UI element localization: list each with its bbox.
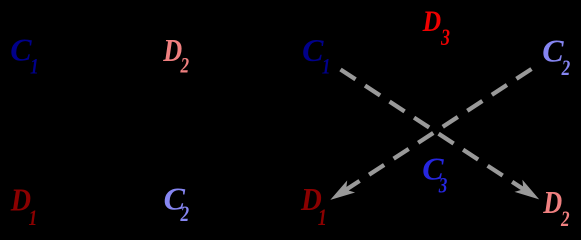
svg-text:2: 2 [180,54,190,79]
svg-text:D: D [162,34,182,69]
svg-text:1: 1 [318,204,327,231]
svg-text:D: D [542,185,562,220]
svg-text:1: 1 [30,55,39,79]
arrowhead of C1-D2 arrow [515,180,540,200]
node D3 (right diagram) [422,4,450,51]
wire dashed arrow from C1 toward D2 [341,70,526,191]
svg-text:2: 2 [180,202,190,227]
node C1 (right diagram) [302,32,330,79]
svg-text:3: 3 [440,26,450,51]
node C2 (left diagram) [164,181,190,227]
svg-text:C: C [10,32,32,68]
svg-text:C: C [302,32,324,68]
svg-text:1: 1 [29,206,38,230]
node C1 (left diagram) [10,32,39,80]
node C3 (right diagram) [422,151,447,198]
svg-text:D: D [422,4,441,37]
node D2 (left diagram) [162,34,189,78]
node D1 (right diagram) [300,181,327,230]
svg-text:2: 2 [560,207,570,232]
svg-text:1: 1 [322,55,331,79]
wire dashed arrow from C2 toward D1 [344,69,532,191]
arrowhead of C2-D1 arrow [330,180,355,200]
node C2 (right diagram) [542,33,570,81]
svg-text:3: 3 [438,173,448,198]
node D2 (right diagram) [542,185,569,231]
node D1 (left diagram) [10,182,37,230]
svg-text:2: 2 [561,56,571,81]
